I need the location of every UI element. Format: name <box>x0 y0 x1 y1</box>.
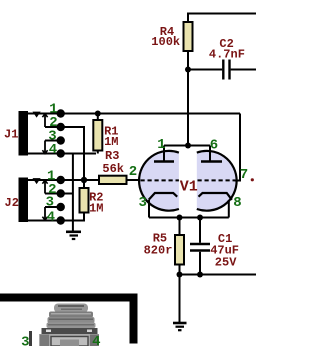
jack J1 switch 1-2 <box>42 114 47 127</box>
jack J2 switch 1-2 <box>42 180 47 193</box>
pin J2-3 <box>57 203 65 211</box>
svg-text:J2: J2 <box>5 196 19 210</box>
photo frame top border <box>0 294 138 302</box>
svg-text:100k: 100k <box>151 35 180 49</box>
jack J2 body <box>19 178 29 223</box>
wire grid pin 7 <box>235 114 241 181</box>
svg-text:3: 3 <box>138 195 146 211</box>
grid dashed line left <box>141 179 179 181</box>
wire anode rail <box>164 145 210 147</box>
wire R2 top lead <box>83 180 85 188</box>
svg-text:J1: J1 <box>4 128 18 142</box>
pin J1-2 <box>57 123 65 131</box>
capacitor C2 <box>223 60 229 80</box>
svg-text:1M: 1M <box>89 201 103 215</box>
wire C2 right <box>231 69 256 71</box>
pin J2-2 <box>57 189 65 197</box>
svg-text:6: 6 <box>210 138 218 154</box>
node grid junction <box>81 177 87 183</box>
wire top rail to R4 <box>188 14 256 23</box>
pin 6 anode lead <box>209 146 211 162</box>
svg-text:4.7nF: 4.7nF <box>209 48 245 62</box>
wire pin 8 cathode <box>228 200 230 218</box>
wire ground drop <box>72 154 74 232</box>
photo frame right border <box>130 294 138 344</box>
red fragment at right edge <box>251 178 254 181</box>
cathode right <box>199 193 232 200</box>
svg-text:4: 4 <box>92 334 100 346</box>
jack J2 switch 3-4 <box>42 207 47 220</box>
jack J2 tip contact <box>33 178 41 184</box>
ground input <box>66 232 81 239</box>
svg-text:56k: 56k <box>102 162 124 176</box>
pin J1-4 <box>57 149 65 157</box>
wire to ground <box>179 275 181 323</box>
wire R5 top lead <box>179 218 181 236</box>
node R1 top <box>95 111 101 117</box>
wire R4 to anodes <box>187 70 189 146</box>
svg-text:7: 7 <box>240 167 248 183</box>
resistor R2 <box>80 188 89 213</box>
wire row J2-1 <box>28 179 99 181</box>
grid dashed line right <box>198 179 236 181</box>
capacitor C1 <box>180 218 211 275</box>
pin J2-1 <box>57 176 65 184</box>
node C1 top <box>197 215 203 221</box>
resistor R4 <box>184 22 193 51</box>
svg-text:3: 3 <box>46 195 54 211</box>
node R5 bottom <box>177 272 183 278</box>
anode plate right <box>201 160 222 163</box>
wire row J2-4 ground <box>28 220 85 222</box>
node R5 top <box>177 215 183 221</box>
svg-text:8: 8 <box>233 195 241 211</box>
cathode left <box>149 193 178 200</box>
wire R1 bottom lead <box>97 151 99 154</box>
ground cathode <box>173 323 187 330</box>
wire row J2-2 <box>45 193 73 195</box>
node anode junction <box>185 143 191 149</box>
wire row 3 <box>45 140 61 142</box>
wire row 4 ground <box>28 153 96 155</box>
jack J1 switch 3-4 <box>42 141 47 154</box>
jack J1 body <box>19 111 29 156</box>
wire cathode bus <box>149 217 229 219</box>
svg-text:820r: 820r <box>144 244 173 258</box>
wire R4 bottom <box>187 51 189 70</box>
triode V1 envelope left half <box>139 151 179 211</box>
jack J1 tip contact <box>33 112 41 118</box>
wire pin 3 cathode <box>148 200 150 218</box>
wire row 2 <box>45 127 84 180</box>
triode V1 envelope right half <box>197 151 237 211</box>
wire R3 to grid <box>127 179 140 181</box>
node C1 bottom <box>197 272 203 278</box>
wire input row 1 <box>28 113 240 115</box>
wire to C2 <box>188 69 222 71</box>
pin J1-1 <box>57 109 65 117</box>
pin 1 anode lead <box>163 146 165 162</box>
resistor R1 <box>93 120 102 151</box>
wire row J2-3 <box>45 206 61 208</box>
wire R2 bottom lead <box>83 213 85 221</box>
pin J2-4 <box>57 216 65 224</box>
anode plate left <box>154 160 174 163</box>
svg-text:25V: 25V <box>215 256 237 270</box>
svg-text:V1: V1 <box>180 178 198 195</box>
photo valve <box>29 304 99 346</box>
svg-text:1: 1 <box>157 137 165 153</box>
svg-text:4: 4 <box>47 209 55 225</box>
wire R1 top lead <box>97 114 99 121</box>
pin J1-3 <box>57 136 65 144</box>
resistor R3 <box>99 176 127 184</box>
svg-text:4: 4 <box>49 142 57 158</box>
svg-text:2: 2 <box>129 164 137 180</box>
wire bottom bus <box>180 274 257 276</box>
svg-text:3: 3 <box>21 335 29 346</box>
svg-text:1M: 1M <box>104 135 118 149</box>
wire R5 bottom lead <box>179 265 181 275</box>
resistor R5 <box>175 235 184 265</box>
node R4/C2 junction <box>185 67 191 73</box>
